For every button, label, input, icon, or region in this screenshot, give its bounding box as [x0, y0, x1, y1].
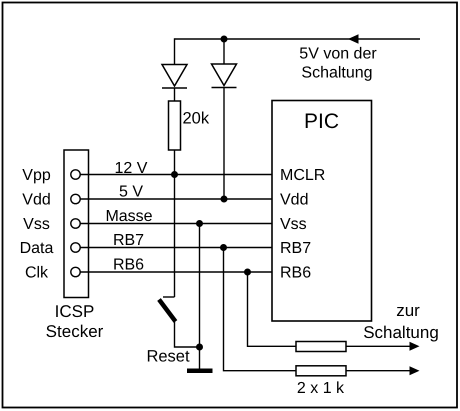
svg-text:Data: Data — [20, 240, 54, 257]
svg-text:2 x 1 k: 2 x 1 k — [297, 380, 345, 397]
wire: Masse down to ground — [199, 224, 201, 370]
arrowhead on 5V feed wire (pointing left) — [348, 34, 359, 43]
wire: D2 cathode down to 5V line — [223, 88, 225, 200]
svg-text:zur: zur — [396, 301, 420, 320]
wire: down to diode D1 — [174, 38, 176, 65]
wire: down to diode D2 — [223, 39, 225, 65]
resistor R1 (upper 1k) — [296, 342, 346, 352]
diode D1 — [162, 65, 187, 89]
svg-text:5V von der: 5V von der — [299, 46, 377, 63]
node: Masse / ground junction — [196, 220, 203, 227]
arrowhead: R2 output (pointing right) — [410, 366, 420, 375]
wire: switch bottom to node — [175, 322, 200, 348]
svg-text:Stecker: Stecker — [46, 322, 104, 341]
svg-text:RB7: RB7 — [280, 240, 311, 257]
svg-text:Vss: Vss — [280, 216, 307, 233]
pin circle Clk — [71, 267, 80, 276]
svg-text:Schaltung: Schaltung — [363, 323, 439, 342]
resistor R2 (lower 1k) — [296, 366, 346, 376]
diode D2 — [212, 64, 237, 88]
resistor 20k — [169, 101, 181, 150]
wire: Clk RB6 line — [80, 271, 272, 273]
svg-text:12 V: 12 V — [115, 160, 148, 177]
wire: Data RB7 line — [80, 247, 272, 249]
svg-text:5 V: 5 V — [119, 184, 143, 201]
svg-text:Vpp: Vpp — [22, 167, 51, 184]
wire: Vdd 5V line — [80, 198, 272, 200]
node: top junction dot — [221, 36, 228, 43]
connector: ICSP box — [64, 150, 89, 298]
pin circle Vdd — [71, 194, 80, 203]
node: reset/ground junction — [196, 344, 203, 351]
arrowhead: R1 output (pointing right) — [410, 342, 420, 351]
wire: R2 to arrow — [346, 370, 412, 372]
svg-text:RB7: RB7 — [113, 232, 144, 249]
wire: RB6 branch down and right to R1 — [248, 272, 297, 346]
svg-text:Masse: Masse — [105, 208, 152, 225]
pin circle Vss — [71, 219, 80, 228]
svg-text:ICSP: ICSP — [55, 302, 95, 321]
svg-text:RB6: RB6 — [280, 265, 311, 282]
node: RB6 branch junction — [244, 269, 251, 276]
svg-text:PIC: PIC — [304, 110, 339, 133]
node: 12V / 20k / reset junction — [171, 171, 178, 178]
pin circle Data — [71, 243, 80, 252]
wire: D1 cathode to resistor — [174, 88, 176, 101]
svg-text:Schaltung: Schaltung — [301, 65, 372, 82]
svg-text:Vss: Vss — [23, 216, 50, 233]
wire: Vpp 12V line — [80, 174, 272, 176]
wire: R1 to arrow — [346, 345, 412, 347]
svg-text:MCLR: MCLR — [280, 167, 325, 184]
wire: Vss Masse line — [80, 223, 272, 225]
svg-text:20k: 20k — [183, 110, 210, 128]
wire: RB7 branch down and right to R2 — [224, 248, 297, 371]
svg-text:Vdd: Vdd — [22, 192, 50, 209]
switch S1 Reset: blade — [159, 300, 176, 322]
wire: top 5V feed horizontal — [175, 38, 421, 40]
svg-text:Reset: Reset — [146, 348, 190, 366]
svg-text:Vdd: Vdd — [280, 192, 308, 209]
pin circle Vpp — [71, 170, 80, 179]
wire: 12V down to reset switch — [174, 175, 176, 298]
node: 5V / D2 junction — [221, 196, 228, 203]
switch S1 Reset: fixed contact jog — [163, 296, 175, 298]
svg-text:Clk: Clk — [25, 265, 49, 282]
IC U1: PIC box — [272, 101, 372, 322]
ground symbol — [187, 369, 213, 374]
svg-text:RB6: RB6 — [113, 257, 144, 274]
node: RB7 branch junction — [220, 244, 227, 251]
wire: resistor to 12V line — [174, 150, 176, 175]
